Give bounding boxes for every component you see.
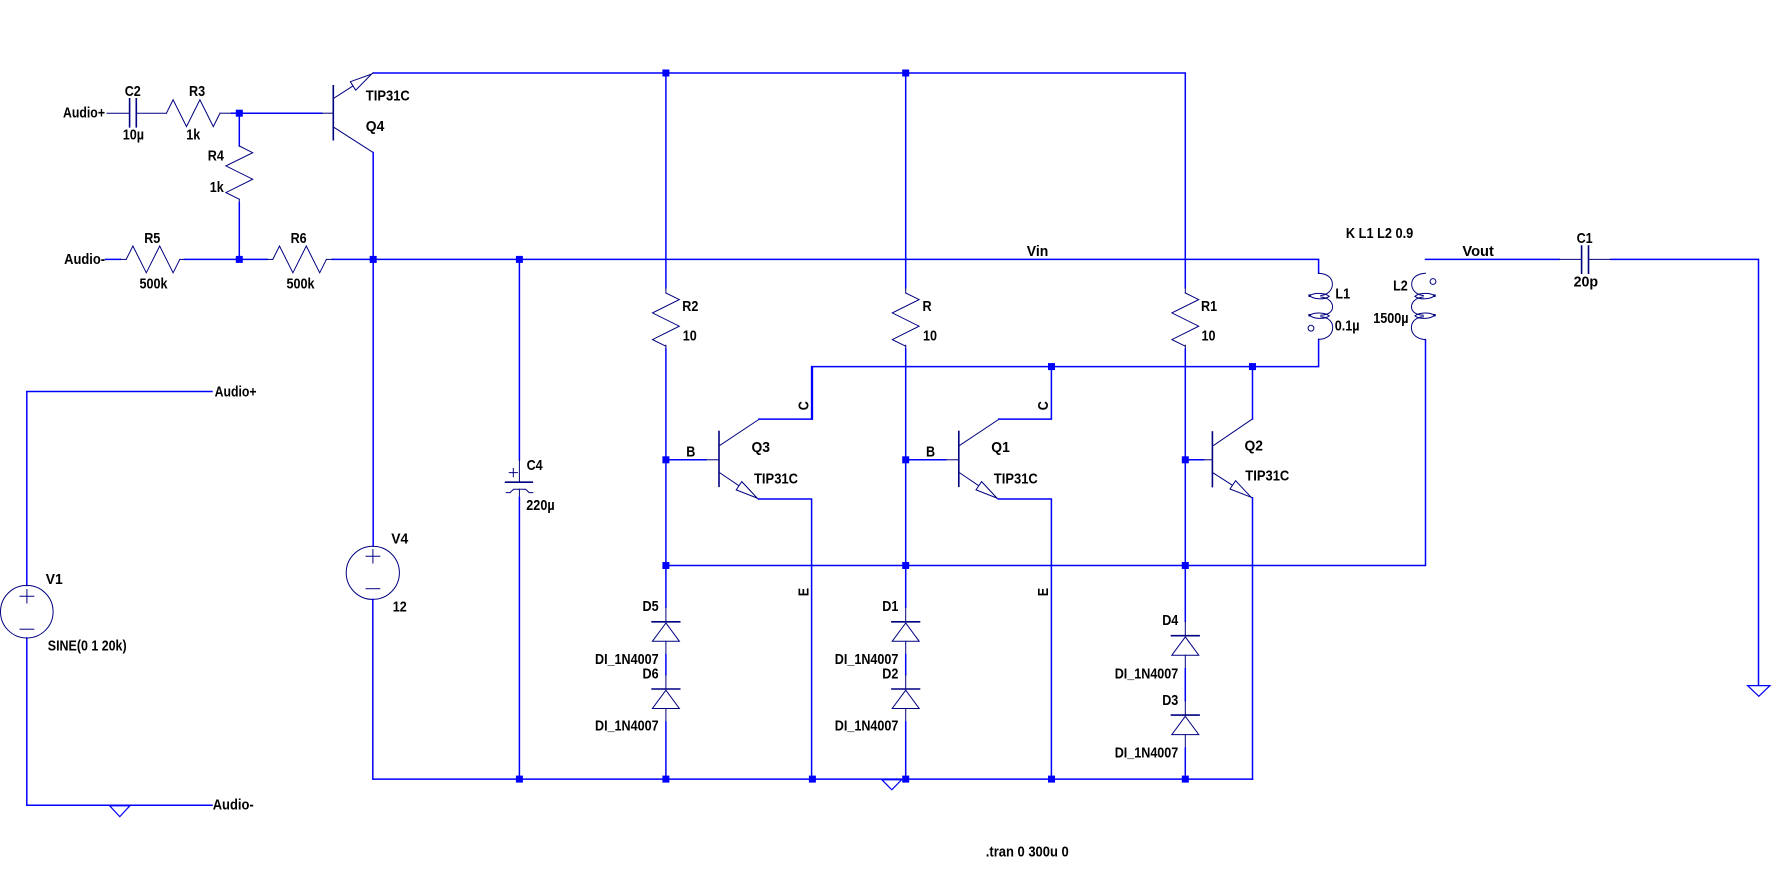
wire Vin rail (Audio- row to L1) (106, 258, 121, 260)
junction Q2 base node (1182, 456, 1189, 463)
wire Vout line (L2 top to C1 to right drop) (1426, 258, 1560, 260)
wire between D1 and D2 (905, 655, 907, 675)
svg-text:Q2: Q2 (1245, 438, 1264, 455)
ground flag on bottom rail (882, 780, 902, 790)
junction node R5/R6/R4 (236, 256, 243, 263)
capacitor C1 (1559, 246, 1611, 273)
transistor Q1 (TIP31C NPN) (946, 419, 999, 499)
svg-text:TIP31C: TIP31C (754, 470, 798, 487)
svg-text:R5: R5 (144, 230, 160, 247)
svg-text:DI_1N4007: DI_1N4007 (835, 717, 899, 734)
wire R bottom to base node (905, 349, 907, 460)
wire D3 to ground rail (1184, 748, 1186, 779)
diode D1 (DI_1N4007) (892, 607, 920, 655)
wire Vin rail segment R6 to L1 top (332, 259, 1318, 273)
wire Q2 base from node (1185, 459, 1203, 461)
svg-text:R1: R1 (1201, 298, 1217, 315)
ground flag at right output (1748, 686, 1770, 697)
transistor Q2 (TIP31C NPN) (1204, 419, 1253, 498)
transistor Q3 (TIP31C NPN) (706, 419, 759, 499)
wire Q1 base from node (906, 459, 946, 461)
junction collector rail / Q1 (1048, 363, 1055, 370)
resistor R (905, 288, 907, 293)
wire Vin rail segment R5 to R6 (184, 258, 267, 260)
wire node to Q4 base (239, 112, 321, 114)
transistor Q4 (TIP31C, emitter up to top rail) (322, 73, 374, 153)
wire R1 bottom to base node (1184, 349, 1186, 460)
voltage source V4 (346, 546, 399, 599)
svg-text:Q3: Q3 (752, 439, 771, 456)
wire D2 to ground rail (905, 722, 907, 779)
svg-text:D2: D2 (882, 666, 898, 683)
svg-text:D1: D1 (882, 598, 898, 615)
wire V1 left loop top (Audio+ flag) (27, 392, 212, 586)
svg-text:C4: C4 (527, 457, 544, 474)
junction node R3/R4/Q4 base (236, 110, 243, 117)
svg-text:C2: C2 (125, 83, 141, 100)
junction ground rail / D3 col (1182, 776, 1189, 783)
junction Q1 base node (902, 456, 909, 463)
junction node R6 / Q4-V4 column (370, 256, 377, 263)
svg-text:R3: R3 (189, 83, 205, 100)
junction ground rail / C4 (516, 776, 523, 783)
svg-text:Audio-: Audio- (64, 251, 105, 268)
wire V4 bottom to ground rail (372, 599, 374, 779)
wire base node to diode D1 (905, 460, 907, 608)
svg-text:20p: 20p (1574, 274, 1599, 291)
junction ground rail / Q3 emitter (809, 776, 816, 783)
svg-text:1k: 1k (210, 179, 225, 196)
svg-text:Vout: Vout (1462, 243, 1494, 260)
wire Q1 collector to rail (999, 367, 1052, 420)
resistor R4 (238, 117, 240, 146)
svg-text:SINE(0 1 20k): SINE(0 1 20k) (48, 637, 127, 654)
resistor R5 (120, 258, 126, 260)
inductor L2 (1500u) (1411, 273, 1436, 339)
svg-text:E: E (795, 588, 812, 596)
capacitor C4 (polarized) (518, 263, 520, 460)
svg-text:12: 12 (393, 599, 407, 616)
junction E rail / D4 column (1182, 562, 1189, 569)
svg-text:DI_1N4007: DI_1N4007 (595, 717, 659, 734)
ground flag at V1 loop (110, 806, 130, 817)
svg-text:.tran 0 300u 0: .tran 0 300u 0 (986, 844, 1069, 861)
wire Q3 emitter down to ground rail (759, 499, 812, 779)
svg-text:Audio-: Audio- (213, 797, 254, 814)
svg-text:R4: R4 (208, 147, 225, 164)
junction node C4 top (516, 256, 523, 263)
wire emitter/diode rail (D5 col to L2 bottom) (666, 340, 1426, 566)
junction ground rail / D2 col (902, 776, 909, 783)
svg-text:R2: R2 (682, 298, 698, 315)
svg-text:C: C (1035, 401, 1052, 410)
capacitor C2 (107, 99, 166, 127)
inductor L1 (0.1u) (1308, 273, 1333, 339)
svg-text:Vin: Vin (1027, 243, 1049, 260)
wire top rail drop to R (905, 73, 907, 288)
svg-text:DI_1N4007: DI_1N4007 (1115, 745, 1179, 762)
junction top rail / R2 (662, 70, 669, 77)
svg-text:220µ: 220µ (526, 497, 554, 514)
wire Q3 collector to rail (759, 367, 812, 420)
wire R3 lead to node (220, 112, 232, 114)
wire base node to diode D4 (1184, 460, 1186, 621)
svg-text:Audio+: Audio+ (215, 383, 257, 400)
wire top rail drop to R2 (665, 73, 667, 288)
svg-text:10: 10 (1202, 328, 1216, 345)
svg-text:Q4: Q4 (366, 118, 385, 135)
diode D3 (DI_1N4007) (1172, 701, 1200, 749)
resistor R6 (267, 258, 273, 260)
svg-text:1k: 1k (186, 127, 201, 144)
svg-text:TIP31C: TIP31C (1245, 468, 1289, 485)
svg-text:10: 10 (923, 328, 937, 345)
junction E rail / D5 column (662, 562, 669, 569)
svg-text:Q1: Q1 (991, 439, 1010, 456)
svg-text:C1: C1 (1577, 230, 1593, 247)
svg-text:R: R (923, 298, 932, 315)
diode D6 (DI_1N4007) (652, 675, 680, 723)
wire Q2 emitter down to ground rail (1252, 498, 1254, 779)
wire Q3 base from node (666, 459, 706, 461)
wire base node to diode D5 (665, 460, 667, 608)
diode D2 (DI_1N4007) (892, 675, 920, 723)
wire top rail (Q4 emitter to R1 column) (373, 73, 1185, 288)
diode D4 (DI_1N4007) (1172, 621, 1200, 669)
svg-text:500k: 500k (140, 275, 169, 292)
svg-text:L1: L1 (1335, 285, 1350, 302)
wire between D5 and D6 (665, 655, 667, 675)
svg-text:D4: D4 (1162, 612, 1179, 629)
junction top rail / R (902, 70, 909, 77)
wire D6 to ground rail (665, 722, 667, 779)
svg-text:V1: V1 (46, 571, 63, 588)
svg-text:E: E (1035, 588, 1052, 596)
svg-text:K L1 L2 0.9: K L1 L2 0.9 (1346, 225, 1413, 242)
svg-text:L2: L2 (1393, 277, 1408, 294)
voltage source V1 (1, 585, 54, 638)
junction collector rail / Q2 (1249, 363, 1256, 370)
svg-text:1500µ: 1500µ (1373, 310, 1408, 327)
svg-text:B: B (926, 443, 935, 460)
wire Q4 collector down to V4 (372, 153, 374, 547)
svg-text:TIP31C: TIP31C (994, 470, 1038, 487)
svg-text:D5: D5 (643, 598, 659, 615)
svg-text:Audio+: Audio+ (63, 104, 105, 121)
svg-text:D6: D6 (643, 666, 659, 683)
wire Q1 emitter down to ground rail (998, 499, 1051, 779)
svg-text:500k: 500k (287, 275, 316, 292)
svg-text:TIP31C: TIP31C (366, 88, 410, 105)
svg-text:10: 10 (683, 328, 697, 345)
svg-text:0.1µ: 0.1µ (1335, 317, 1360, 334)
svg-text:C: C (795, 401, 812, 410)
wire Q2 collector to rail (1252, 367, 1254, 420)
junction ground rail / D6 col (662, 776, 669, 783)
resistor R3 (166, 100, 220, 127)
wire V1 bottom to Audio- flag (27, 638, 212, 805)
resistor R1 (1184, 288, 1186, 293)
svg-text:R6: R6 (291, 230, 307, 247)
svg-text:V4: V4 (391, 530, 409, 547)
wire R2 bottom to base node (665, 349, 667, 460)
resistor R2 (665, 288, 667, 293)
svg-text:10µ: 10µ (123, 126, 144, 143)
junction Q3 base node (662, 456, 669, 463)
wire bottom ground rail (373, 778, 1252, 780)
svg-text:B: B (686, 443, 695, 460)
wire C1 right to ground drop (1611, 259, 1759, 684)
junction E rail / D1 column (902, 562, 909, 569)
junction ground rail / Q1 emitter (1048, 776, 1055, 783)
svg-text:DI_1N4007: DI_1N4007 (1115, 666, 1179, 683)
wire collector rail (Q3/Q1/Q2 collectors to L1 bottom) (812, 339, 1318, 419)
diode D5 (DI_1N4007) (652, 607, 680, 655)
wire C4 bottom to ground rail (518, 498, 520, 780)
svg-text:D3: D3 (1162, 692, 1178, 709)
wire between D4 and D3 (1184, 669, 1186, 701)
